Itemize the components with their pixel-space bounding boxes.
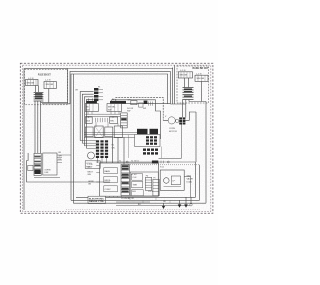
wire right drops to bus [196,162,200,200]
svg-text:SW: SW [86,109,89,111]
wire S9 drop [201,81,203,101]
switch row S5 [95,126,104,138]
dashed box PULSE IGNITION module [25,69,68,105]
wire W2 long loop top [42,71,170,104]
wire through switch row [84,131,137,133]
ground G1 [162,203,166,209]
wire L2 long with door switch [121,103,170,105]
bus wire 2 [71,199,200,201]
wire stack to motor grid [183,100,190,118]
pin ticks [148,102,152,106]
hatch connector J9 [145,177,151,190]
wire motor feeds [163,112,196,162]
hatch connector J10 [153,179,159,196]
svg-text:SW IGN: SW IGN [180,75,188,77]
wire motor branch [159,125,182,159]
svg-text:CONV: CONV [169,128,176,130]
svg-text:BR SEL: BR SEL [108,107,116,109]
svg-text:CONV: CONV [105,189,112,191]
svg-text:BAKE: BAKE [105,170,111,173]
connector stack P3 [183,88,194,100]
wire module to W3 [41,89,68,103]
switch bank SW1 [85,101,98,112]
svg-text:GY WH BK OR: GY WH BK OR [121,198,134,200]
wire gas valve feed [184,177,190,198]
wire lock module frame [129,135,162,159]
lock module box [135,135,160,147]
connector P1 [94,88,98,101]
ground G4 [190,197,192,206]
svg-text:BAKE BR CKT: BAKE BR CKT [193,67,210,70]
wire P1 stubs [98,89,103,100]
terminal circles [126,161,128,163]
wire column D [72,74,74,203]
terminal list labels left of ERC [96,166,99,183]
svg-text:MOTOR: MOTOR [169,131,177,133]
svg-text:RANGE CTRL: RANGE CTRL [89,200,105,203]
inline switch S10 [139,103,143,107]
svg-text:L-1 N: L-1 N [180,70,186,72]
switch bank SW2 [107,101,126,112]
wire ERC top with terminal blob [96,161,196,163]
terminal tick row [95,118,107,122]
ERC bottom label box [88,196,106,203]
svg-text:SW IGN: SW IGN [46,84,54,86]
wire burner bottom [34,176,60,178]
ignition switch S2 [44,82,56,89]
wire SW2 to relay corner [112,100,161,139]
wire CB stubs down [88,112,119,128]
ERC board box [100,163,159,196]
wire module verticals [36,86,39,93]
switch row S7 [114,126,122,138]
wire module verticals [185,78,189,88]
svg-text:T1: T1 [119,160,121,162]
svg-text:OVEN: OVEN [45,170,51,172]
svg-text:TMR: TMR [133,185,138,187]
relay coil RY2 [150,129,159,134]
svg-text:SW: SW [108,109,111,111]
svg-text:L-1 N: L-1 N [196,74,202,76]
wire bus jog [116,202,190,206]
wire burner stubs [57,155,71,163]
connector stack P2 [34,92,44,101]
svg-text:DUAL: DUAL [187,180,193,183]
connector grid J5 [143,149,158,155]
bus wire 1 [76,196,196,198]
bus wire 3 [73,202,206,204]
ground G3 [184,197,188,207]
relay K2 [110,117,118,123]
svg-text:CLK: CLK [133,177,138,179]
wire grid to ERC stubs [98,158,107,163]
spark switch S8 [178,72,192,78]
wire W1 routed along left border [24,69,68,210]
svg-text:L-1 N: L-1 N [45,79,51,81]
dashed box BAKE/BROIL module [177,66,209,103]
door switch S3 [131,101,137,105]
relay coil RY1 [137,129,148,134]
blower motor M1 [168,117,175,124]
switch row S4 [85,127,93,137]
svg-text:SW IGN: SW IGN [197,78,205,80]
svg-text:GAS: GAS [187,174,192,177]
svg-text:PULSE IGN CKT: PULSE IGN CKT [38,74,51,77]
valve solenoid V1 [164,178,170,184]
gas valve box [160,170,184,190]
svg-text:LOCK: LOCK [148,191,154,193]
wire border right drop [189,102,206,204]
connector J7 [179,117,185,124]
svg-text:VALVE: VALVE [187,177,194,180]
svg-text:P5: P5 [153,178,155,180]
wire SW stubs up [88,98,92,101]
svg-text:SW: SW [143,108,146,110]
svg-text:P4: P4 [146,176,148,178]
wire bus ticks [130,197,170,203]
svg-text:L-1 N: L-1 N [28,78,34,80]
wire top loop A [68,68,173,69]
svg-text:CN: CN [112,148,116,150]
wire P1 corner group [80,92,93,149]
svg-text:DLB: DLB [86,121,91,123]
connector blob J2 [144,101,148,104]
svg-text:WH: WH [88,174,92,176]
svg-text:P1: P1 [98,86,100,88]
label box M2 [85,161,100,169]
svg-text:T2 T3 T4: T2 T3 T4 [131,160,139,162]
svg-text:SW IGN: SW IGN [27,83,35,85]
oven burner box [43,153,57,175]
connector grid J6 main [96,140,108,158]
spark switch S9 [195,75,208,81]
svg-text:N L1: N L1 [160,166,164,168]
wire W3 to motor [71,74,168,200]
connector grid J4 [146,136,157,145]
wire border outer dashed frame [20,63,213,213]
wire top-right inner [170,65,186,104]
ignition switch S1 [26,80,39,86]
svg-text:120V: 120V [88,167,93,169]
svg-text:K1 NO: K1 NO [131,174,137,176]
valve block [171,176,180,185]
wire grid feed stubs [80,141,96,149]
connector J3 hatch [121,113,128,128]
connector column J8 [121,165,129,196]
wire faint bottom [66,209,200,211]
ERC right section box [130,172,158,196]
svg-text:IGN: IGN [45,172,49,174]
wire motor feed [116,98,163,121]
wire mid bus pair [85,114,120,116]
wire left jog to ERC [27,153,110,182]
switch row S6 [105,127,113,137]
wire stack down to ladder [35,101,41,153]
oven ignitor ladder [34,153,41,175]
fan motor M2 [88,152,95,159]
wire verticals to ERC [113,137,125,164]
wire grid feeds [84,135,135,138]
svg-text:SW: SW [127,110,130,112]
ground G2 [178,200,182,207]
relay K1 [85,117,92,123]
wire dotted aux [128,164,200,166]
thermal fuse F1 [28,165,33,170]
relay boxes inside ERC [104,168,118,174]
svg-text:BROIL: BROIL [105,180,112,182]
